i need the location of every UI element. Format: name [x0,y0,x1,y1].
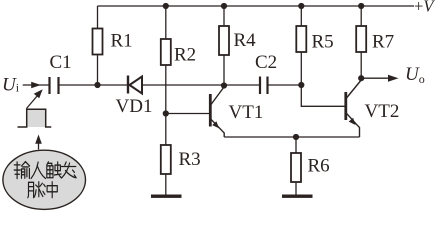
char ru (enter) [31,162,45,178]
Ui input arrow [31,82,41,89]
resistor R2 [161,39,171,65]
wire R5 bottom to node [300,52,302,85]
svg-text:Uo: Uo [405,64,425,86]
wire R4 column [223,6,225,26]
resistor R5 [296,26,306,52]
svg-text:C1: C1 [50,52,72,73]
label input trigger pulse (Chinese, drawn strokes) [14,162,76,198]
svg-text:R7: R7 [372,32,394,53]
wire R5 column [300,6,302,26]
junction node R7/VT2 collector/Uo [358,75,364,81]
resistor R7 [356,26,366,52]
wire base node to VT1 base [166,113,209,115]
wire R2 column [165,6,167,39]
svg-text:R5: R5 [312,32,334,53]
ground R3 [151,195,182,198]
svg-text:Ui: Ui [2,75,20,96]
resistor R6 [291,153,301,182]
wire R6 top [295,137,297,153]
svg-text:+V: +V [414,0,435,16]
svg-text:VT1: VT1 [229,102,264,123]
wire R7 column [360,6,362,26]
junction node emitter line/R6 [293,134,299,140]
pulse waveform symbol [18,109,52,127]
svg-text:R3: R3 [179,149,201,170]
wire collector node to C2 left plate [224,84,260,86]
resistor R3 [161,145,171,174]
junction node R2/R3/VT1 base [163,110,169,116]
junction node rail-R5 [298,3,304,9]
Uo output arrow [363,75,399,82]
arrow pulse to input [27,89,43,108]
resistor R1 [93,29,103,55]
svg-text:R2: R2 [174,45,196,66]
resistor R4 [219,26,229,55]
wire R4 bottom to collector node [223,55,225,86]
arrow ellipse to pulse [35,135,42,150]
svg-text:R1: R1 [111,31,133,52]
wire R3 column [165,114,167,146]
wire R5 node down and right to VT2 base [301,85,345,106]
char shu (input) [14,162,29,179]
svg-text:C2: C2 [255,52,277,73]
transistor VT1 [210,87,224,137]
wire C1 right plate to node A to VD1 [59,84,128,86]
wire Ui input lead [23,84,50,86]
junction node rail-R4 [221,3,227,9]
ellipse input trigger pulse [3,150,86,209]
capacitor C1 [50,77,59,94]
transistor VT2 [346,80,361,137]
junction node C1/R1/VD1 [94,82,100,88]
ground R6 [282,195,313,198]
char mai (pulse-1) [28,182,43,198]
wire VD1 anode to VT1 collector node [142,84,224,86]
wire R2 bottom to base node [165,65,167,114]
svg-text:VT2: VT2 [365,101,400,122]
wire emitter line VT1 to VT2 [224,136,359,138]
svg-text:VD1: VD1 [116,96,153,117]
diode VD1 [128,76,142,94]
junction node rail-R7 [358,3,364,9]
wire R1 column [97,6,99,85]
wire R7 bottom to Uo node [360,52,362,78]
wire top supply rail [98,5,415,7]
junction node VT1 collector/R4/C2 [221,82,227,88]
svg-text:R6: R6 [308,156,330,177]
char chong (pulse-2) [43,182,57,198]
svg-text:R4: R4 [234,30,257,51]
wire R3 bottom to ground [165,174,167,195]
wire C2 right plate to R5 node [268,84,302,86]
char fa (trigger) [61,162,76,178]
capacitor C2 [260,77,268,95]
wire R6 bottom to ground [295,182,297,195]
junction node rail-R2 [163,3,169,9]
junction node C2/R5/VT2 base [298,82,304,88]
char chu (touch) [47,162,61,178]
